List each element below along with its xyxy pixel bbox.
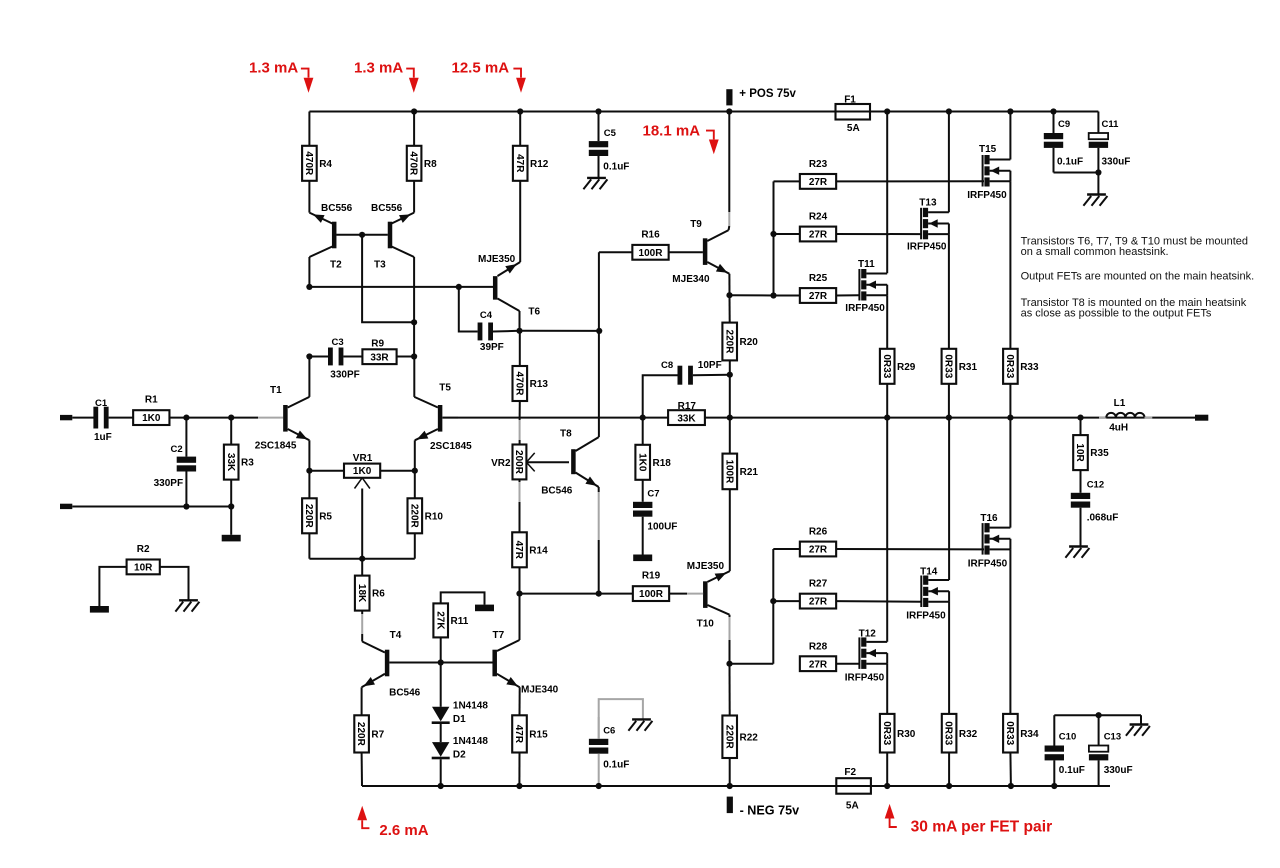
svg-text:T10: T10 [697,618,715,629]
svg-text:R31: R31 [959,362,978,373]
svg-text:27R: 27R [809,230,828,241]
svg-text:R27: R27 [809,579,828,590]
wire D2 to rail [440,759,442,786]
diode D2 1N4148 [440,724,442,742]
svg-text:R30: R30 [897,729,916,740]
wire R23 to T15 gate [836,180,984,182]
wire R1 to T1 base [169,417,258,419]
svg-text:0.1uF: 0.1uF [1059,765,1085,776]
ground diagonal right of C6 [632,718,651,720]
svg-text:2SC1845: 2SC1845 [255,441,297,452]
node R4 top corner [308,112,310,146]
svg-text:C11: C11 [1102,119,1120,130]
resistor R21 100R [729,418,731,454]
svg-text:0R33: 0R33 [881,721,892,745]
svg-text:R19: R19 [642,571,661,582]
svg-text:27R: 27R [809,545,828,556]
svg-text:27K: 27K [434,611,445,630]
ground diagonal right of C13 [1130,723,1149,725]
svg-text:F1: F1 [844,95,856,106]
svg-text:T2: T2 [330,260,342,271]
wire T3 collector down [413,257,415,357]
svg-text:100R: 100R [639,248,664,259]
svg-text:C2: C2 [171,444,183,455]
wire T7 collector up [519,594,521,640]
input terminal bottom [60,504,72,509]
svg-text:R2: R2 [137,544,150,555]
svg-text:5A: 5A [846,801,859,812]
pot VR1 1K0 [309,470,344,472]
svg-text:as close as possible to the ou: as close as possible to the output FETs [1021,308,1212,320]
svg-text:33R: 33R [370,352,389,363]
svg-text:R22: R22 [740,732,759,743]
transistor T4 BC546 [385,650,390,677]
wire T7 emitter down [519,687,521,715]
svg-text:- NEG 75v: - NEG 75v [740,804,800,818]
mosfet T15 IRFP450 [1009,112,1011,160]
svg-text:R18: R18 [653,458,672,469]
node R27 tap [770,598,776,604]
output terminal [1195,415,1208,421]
node R35 junction [1077,415,1083,421]
ground below C9/C11 [1087,193,1106,195]
svg-text:0R33: 0R33 [1004,721,1015,745]
inductor L1 4uH [1099,417,1106,419]
svg-text:47R: 47R [513,541,524,560]
fuse F1 5A [836,104,871,120]
resistor R34 0R33 [1003,714,1018,753]
wire tail tie line [309,558,414,560]
wire VR2 bottom to R14 [519,479,521,482]
svg-text:IRFP450: IRFP450 [845,673,885,684]
node T6 collector / C4 / R13 junction [516,328,522,334]
node R25 tap [770,292,776,298]
ground bar below R3 [222,535,241,542]
svg-text:220R: 220R [723,725,734,750]
svg-text:1K0: 1K0 [142,413,161,424]
wire R27 to T14 gate [836,600,922,603]
svg-text:39PF: 39PF [480,342,504,353]
svg-text:0.1uF: 0.1uF [603,760,629,771]
capacitor C9 0.1uF [1053,112,1055,134]
wire R25 to T11 gate [836,294,859,296]
svg-text:1.3 mA: 1.3 mA [354,59,403,76]
svg-text:C3: C3 [332,337,344,348]
node R3 junction [228,415,234,421]
mosfet T14 IRFP450 [948,418,950,580]
resistor R24 27R [800,227,836,242]
ground below C5 [587,177,606,179]
wire R2 right to ground [160,567,189,600]
wire T5 base gray stub [442,417,458,419]
node C5 junction [595,108,601,114]
transistor T3 BC556 [388,222,393,249]
node R9 right junction [411,353,417,359]
svg-text:30 mA per FET pair: 30 mA per FET pair [911,819,1053,836]
mosfet T12 IRFP450 [886,418,888,642]
svg-text:R9: R9 [371,338,384,349]
svg-text:T4: T4 [390,630,402,641]
wire T9 emitter to gate column [730,294,774,296]
node C6 junction [596,783,602,789]
svg-text:R10: R10 [425,511,444,522]
capacitor C4 39PF [459,287,478,332]
wire R3 bottom to ground [230,507,232,535]
wire T4 emitter down [361,687,363,715]
node R34 junction [1008,783,1014,789]
svg-text:33K: 33K [225,453,236,472]
wire T1 collector up [308,357,310,397]
svg-text:.068uF: .068uF [1087,513,1119,524]
resistor R31 0R33 [942,349,957,384]
svg-text:on a small common heastsink.: on a small common heastsink. [1021,246,1169,258]
svg-text:100UF: 100UF [647,522,677,533]
node C9 junction [1050,108,1056,114]
svg-text:IRFP450: IRFP450 [845,303,885,314]
node T8 collector / T6 collector node junction [596,328,602,334]
wire T5 collector up [413,357,415,397]
node R8 junction [411,108,417,114]
resistor R22 220R [729,664,731,716]
node T13 drain column junction [946,108,952,114]
wire T9 emitter down [728,274,730,295]
svg-text:12.5 mA: 12.5 mA [452,59,510,76]
resistor R7 220R [354,715,369,752]
svg-text:C8: C8 [661,360,673,371]
fuse F2 5A [836,778,871,794]
wire C9/C11 bottoms to ground [1054,172,1099,174]
capacitor C12 .068uF [1080,470,1082,493]
svg-text:0R33: 0R33 [881,354,892,378]
svg-text:200R: 200R [513,450,524,475]
ground below C12 [1069,545,1088,547]
wire T8 collector up crossing output line [598,252,600,437]
svg-text:R20: R20 [740,337,759,348]
svg-text:470R: 470R [408,151,419,176]
resistor R26 27R [800,542,836,557]
node T10 collector junction [726,661,732,667]
svg-text:T7: T7 [493,630,505,641]
wire T13 source to R31 [948,234,950,349]
wire R12 to T6 emitter [519,181,521,263]
svg-text:0R33: 0R33 [943,354,954,378]
transistor T2 BC556 [332,222,337,249]
svg-text:R33: R33 [1020,362,1039,373]
wire top +75V rail [309,111,1098,113]
resistor R25 27R [800,288,836,303]
svg-text:T15: T15 [979,144,997,155]
ground diagonal right of R2 [179,599,198,601]
svg-text:D1: D1 [453,714,466,725]
svg-text:33K: 33K [677,413,696,424]
svg-text:MJE340: MJE340 [672,274,710,285]
svg-text:T13: T13 [919,198,937,209]
resistor R28 27R [800,656,836,671]
resistor R33 0R33 [1003,349,1018,384]
svg-text:10R: 10R [134,563,153,574]
capacitor C2 330PF [185,418,187,457]
node base tie junction [359,232,365,238]
svg-text:R35: R35 [1090,448,1109,459]
svg-text:27R: 27R [809,597,828,608]
wire mirror output to T6 base [309,286,493,288]
svg-text:BC546: BC546 [541,486,573,497]
node D2 junction [438,783,444,789]
pot VR2 200R [513,445,527,480]
wire R13 to VR2 crossing output line [519,401,521,420]
node R22/NEG junction [727,783,733,789]
svg-text:10PF: 10PF [698,360,722,371]
svg-text:1N4148: 1N4148 [453,736,488,747]
wire C1 to R1 [109,417,134,419]
node R29 output rail junction [884,415,890,421]
wire bottom -75V rail [362,785,1110,787]
svg-text:R7: R7 [371,730,384,741]
wire lower gate column [772,549,774,664]
wire gray segment to T1 base [258,417,283,419]
svg-text:R4: R4 [319,159,332,170]
svg-text:L1: L1 [1114,398,1126,409]
input terminal top [60,415,72,420]
ground bar left of R2 [90,606,109,613]
svg-text:C9: C9 [1058,119,1070,130]
svg-text:C13: C13 [1104,732,1121,743]
wire R24 to T13 gate [836,233,922,235]
svg-text:BC556: BC556 [371,203,403,214]
node T11 drain column junction [884,108,890,114]
resistor R15 47R [512,715,527,752]
node C10 junction [1051,783,1057,789]
svg-text:MJE340: MJE340 [521,685,559,696]
resistor R16 100R [599,251,632,253]
node C3 left junction [306,353,312,359]
diode D1 1N4148 [440,663,442,707]
svg-text:R8: R8 [424,159,437,170]
svg-text:IRFP450: IRFP450 [907,242,947,253]
svg-text:0R33: 0R33 [1004,354,1015,378]
capacitor C7 100UF [642,480,644,502]
svg-text:0R33: 0R33 [943,721,954,745]
wire R8 to T3 emitter [413,181,415,213]
transistor T5 2SC1845 [438,405,443,432]
svg-text:T1: T1 [270,385,282,396]
resistor R5 220R [308,471,310,499]
wire T15 source to R33 [1009,181,1011,348]
node C2 junction [183,415,189,421]
mosfet T13 IRFP450 [948,112,950,213]
svg-text:470R: 470R [513,372,524,397]
svg-text:0.1uF: 0.1uF [603,162,629,173]
node R15 junction [516,783,522,789]
wire T8 emitter down [598,487,600,492]
svg-text:IRFP450: IRFP450 [906,611,946,622]
resistor R8 [407,146,422,181]
svg-text:R26: R26 [809,527,828,538]
capacitor C8 10PF [643,375,678,417]
node C8 right junction [727,372,733,378]
node R12 junction [517,108,523,114]
resistor R1 1K0 [133,410,169,425]
svg-text:27R: 27R [809,659,828,670]
svg-text:18.1 mA: 18.1 mA [643,122,701,139]
VR1 wiper arrow [355,478,363,489]
resistor R4 [302,146,317,181]
svg-text:R28: R28 [809,641,828,652]
node T5 emitter junction [412,468,418,474]
svg-text:330uF: 330uF [1102,157,1131,168]
capacitor C5 0.1uF [598,112,600,142]
wire R2 left to ground [99,567,126,606]
svg-text:MJE350: MJE350 [478,254,516,265]
capacitor C13 330uF electrolytic [1098,715,1100,745]
svg-text:Output FETs are mounted on the: Output FETs are mounted on the main heat… [1021,271,1255,283]
resistor R18 1K0 [642,418,644,445]
wire T10 collector down [729,615,731,617]
svg-text:R3: R3 [241,458,254,469]
wire C10/C13 tops to ground [1054,714,1141,716]
svg-text:T8: T8 [560,428,572,439]
svg-text:R34: R34 [1020,729,1039,740]
svg-text:T9: T9 [690,219,702,230]
wire T14 source to R32 [948,602,950,714]
svg-text:BC546: BC546 [389,688,421,699]
svg-text:VR2: VR2 [491,458,511,469]
transistor T7 MJE340 [492,650,497,677]
svg-text:18K: 18K [356,584,367,603]
svg-text:MJE350: MJE350 [687,561,725,572]
mosfet T11 IRFP450 [886,112,888,274]
resistor R35 10R [1080,418,1082,436]
svg-text:T16: T16 [980,513,998,524]
wire T5 emitter down [414,440,416,470]
svg-text:47R: 47R [514,154,525,173]
svg-text:R15: R15 [529,730,548,741]
node R30 junction [884,783,890,789]
resistor R20 220R [729,295,731,322]
resistor R6 18K [361,559,363,576]
power terminal - NEG 75v [727,797,733,814]
node T8 emitter bottom junction [596,591,602,597]
svg-text:R29: R29 [897,362,916,373]
svg-text:47R: 47R [513,725,524,744]
svg-text:C10: C10 [1059,732,1076,743]
svg-text:330PF: 330PF [154,478,183,489]
capacitor C1 1uF [93,407,98,429]
mosfet T16 IRFP450 [1009,418,1011,528]
svg-text:10R: 10R [1074,443,1085,462]
wire T4/T7 base tie [389,662,492,664]
wire R11 to base tie [440,637,442,662]
wire T10 collector to lower gate column [730,663,774,665]
node R18/C8 junction [640,415,646,421]
VR2 wiper arrow to T8 base [526,453,534,462]
wire lower input line [72,506,231,508]
svg-text:330uF: 330uF [1104,765,1133,776]
resistor R12 [513,146,528,181]
wire T6 collector down [519,311,521,331]
svg-text:220R: 220R [723,330,734,355]
ground bar right of R11 [475,605,494,612]
wire R26 to T16 gate [836,548,984,550]
wire input to C1 [72,417,94,419]
resistor R13 470R [519,331,521,366]
svg-text:R13: R13 [530,379,549,390]
svg-text:R1: R1 [145,395,158,406]
node T9 emitter junction [726,292,732,298]
svg-text:27R: 27R [809,291,828,302]
svg-text:4uH: 4uH [1109,422,1128,433]
capacitor C3 330PF [309,356,328,358]
svg-text:T12: T12 [859,629,877,640]
node C4 branch junction [456,284,462,290]
svg-text:470R: 470R [303,151,314,176]
transistor T1 2SC1845 [283,405,288,432]
power terminal + POS 75v [726,108,732,114]
wire T12 source to R30 [886,664,888,714]
resistor R17 33K [668,410,705,425]
node T1 emitter junction [306,468,312,474]
node T3 collector/base junction [411,319,417,325]
svg-text:R11: R11 [451,616,469,627]
svg-text:1.3 mA: 1.3 mA [249,59,298,76]
transistor T9 MJE340 [703,238,708,265]
wire base tie down and over to T3 collector [362,235,414,322]
node tail junction [359,556,365,562]
VBE mult bottom node wire [516,591,522,597]
wire T2 collector down [308,257,310,287]
annotation 30 mA per FET pair arrow [885,804,895,819]
svg-text:R12: R12 [530,159,549,170]
wire T9 collector to +rail [728,112,730,213]
svg-text:R21: R21 [740,467,759,478]
wire upper gate column [773,181,775,295]
svg-text:IRFP450: IRFP450 [968,559,1008,570]
resistor R29 0R33 [880,349,895,384]
svg-text:1K0: 1K0 [353,466,372,477]
svg-text:T6: T6 [528,307,540,318]
resistor R2 10R [127,560,160,575]
svg-text:220R: 220R [355,722,366,747]
svg-text:2.6 mA: 2.6 mA [379,822,428,839]
wire T2/T3 base tie [336,234,387,236]
svg-text:100R: 100R [639,589,664,600]
svg-text:27R: 27R [809,177,828,188]
resistor R30 0R33 [880,714,895,753]
resistor R10 220R [414,471,416,499]
svg-text:R25: R25 [809,273,828,284]
node R31 output rail junction [946,415,952,421]
svg-text:F2: F2 [844,767,856,778]
wire T1 emitter down [308,440,310,470]
wire output/feedback line [442,417,668,419]
node R32 junction [946,783,952,789]
annotation 2.6 mA arrow [357,806,367,821]
svg-text:R23: R23 [809,159,828,170]
capacitor C11 330uF electrolytic [1097,112,1099,134]
wire C6 to ground gray jog [599,699,643,739]
wire R4 to T2 emitter [308,181,310,213]
svg-text:R6: R6 [372,589,385,600]
svg-text:R14: R14 [529,545,548,556]
transistor T6 MJE350 [493,276,498,300]
svg-text:C5: C5 [604,128,617,139]
node T2 collector junction [306,284,312,290]
svg-text:IRFP450: IRFP450 [967,190,1007,201]
wire junction to T8 collector column [520,330,600,332]
svg-text:VR1: VR1 [353,453,373,464]
svg-text:1N4148: 1N4148 [453,701,488,712]
resistor R32 0R33 [942,714,957,753]
